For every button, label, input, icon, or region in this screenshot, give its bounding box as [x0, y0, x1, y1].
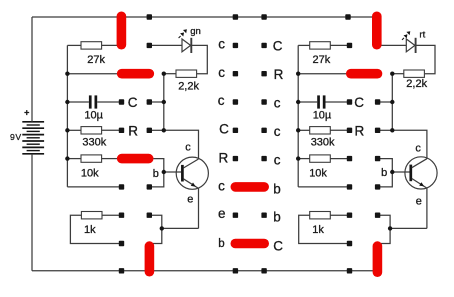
svg-text:R: R — [355, 123, 365, 138]
svg-text:b: b — [273, 182, 281, 197]
svg-text:c: c — [274, 124, 281, 139]
svg-text:1k: 1k — [84, 224, 96, 236]
svg-text:330k: 330k — [82, 137, 106, 149]
svg-text:c: c — [415, 143, 421, 155]
svg-text:+: + — [24, 107, 29, 117]
svg-text:e: e — [218, 206, 226, 221]
svg-text:C: C — [273, 39, 283, 54]
svg-text:c: c — [218, 179, 225, 194]
svg-text:2,2k: 2,2k — [406, 78, 427, 90]
svg-text:c: c — [185, 142, 191, 154]
svg-text:10k: 10k — [309, 168, 327, 180]
svg-text:rt: rt — [419, 30, 425, 41]
svg-text:1k: 1k — [312, 224, 324, 236]
svg-text:C: C — [354, 95, 364, 110]
svg-text:R: R — [128, 123, 138, 138]
svg-text:27k: 27k — [87, 54, 105, 66]
svg-text:C: C — [128, 95, 138, 110]
svg-text:c: c — [218, 65, 225, 80]
svg-text:27k: 27k — [313, 54, 331, 66]
svg-text:gn: gn — [190, 26, 201, 37]
svg-text:c: c — [218, 93, 225, 108]
svg-text:b: b — [381, 167, 387, 179]
svg-text:c: c — [274, 96, 281, 111]
svg-text:c: c — [274, 152, 281, 167]
svg-text:e: e — [416, 195, 422, 207]
svg-text:C: C — [273, 239, 283, 254]
svg-text:10k: 10k — [81, 168, 99, 180]
svg-text:e: e — [187, 194, 193, 206]
svg-text:b: b — [153, 168, 159, 180]
svg-text:R: R — [219, 151, 229, 166]
svg-text:2,2k: 2,2k — [178, 81, 199, 93]
svg-text:C: C — [219, 121, 229, 136]
svg-text:R: R — [274, 67, 284, 82]
svg-text:c: c — [218, 37, 225, 52]
svg-text:9V: 9V — [10, 132, 22, 142]
svg-text:b: b — [218, 238, 224, 250]
svg-text:10µ: 10µ — [313, 110, 332, 122]
svg-text:330k: 330k — [311, 137, 335, 149]
svg-text:b: b — [273, 210, 281, 225]
svg-text:10µ: 10µ — [84, 110, 103, 122]
